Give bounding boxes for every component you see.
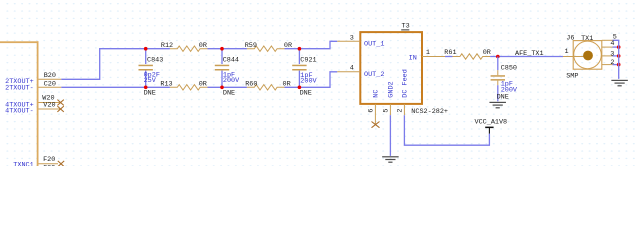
svg-text:200V: 200V — [223, 77, 240, 85]
svg-text:SMP: SMP — [566, 72, 578, 80]
svg-text:C844: C844 — [223, 56, 239, 64]
svg-text:2: 2 — [610, 59, 614, 67]
svg-text:25V: 25V — [144, 77, 157, 85]
svg-text:NCS2-282+: NCS2-282+ — [411, 108, 448, 116]
svg-text:6: 6 — [367, 109, 375, 113]
svg-text:4: 4 — [610, 40, 614, 48]
svg-text:IN: IN — [409, 54, 417, 62]
svg-text:AFE_TX1: AFE_TX1 — [515, 50, 544, 58]
svg-text:DNE: DNE — [300, 89, 312, 97]
svg-text:DNE: DNE — [223, 90, 235, 98]
svg-text:0R: 0R — [283, 81, 291, 89]
svg-text:R12: R12 — [161, 42, 173, 50]
svg-text:VCC_A1V8: VCC_A1V8 — [475, 118, 508, 126]
svg-text:0R: 0R — [199, 81, 207, 89]
svg-text:J6: J6 — [566, 34, 574, 42]
svg-text:4TXOUT-: 4TXOUT- — [5, 108, 34, 116]
svg-text:R13: R13 — [160, 81, 172, 89]
svg-text:T3: T3 — [402, 22, 410, 30]
svg-text:TX1: TX1 — [581, 35, 593, 43]
svg-text:DNE: DNE — [497, 94, 509, 102]
svg-text:R60: R60 — [245, 81, 257, 89]
svg-text:R59: R59 — [245, 42, 257, 50]
svg-text:F20: F20 — [43, 156, 55, 164]
svg-text:OUT_1: OUT_1 — [364, 41, 384, 49]
svg-text:4: 4 — [350, 64, 354, 72]
svg-text:3: 3 — [350, 34, 354, 42]
svg-text:OUT_2: OUT_2 — [364, 71, 384, 79]
svg-text:G20: G20 — [43, 164, 55, 166]
svg-text:0R: 0R — [199, 42, 207, 50]
svg-text:3: 3 — [610, 50, 614, 58]
svg-text:0R: 0R — [284, 42, 292, 50]
svg-text:DC Feed: DC Feed — [402, 69, 410, 98]
svg-text:GND2: GND2 — [388, 81, 396, 97]
svg-text:DNE: DNE — [144, 90, 156, 98]
svg-text:C921: C921 — [300, 56, 316, 64]
svg-text:B20: B20 — [44, 72, 56, 80]
svg-text:2: 2 — [396, 109, 404, 113]
svg-text:TXNC1: TXNC1 — [13, 162, 33, 166]
svg-text:C843: C843 — [147, 56, 163, 64]
svg-text:C850: C850 — [501, 65, 517, 73]
svg-text:1: 1 — [565, 48, 569, 56]
svg-text:2TXOUT-: 2TXOUT- — [5, 85, 34, 93]
svg-text:200V: 200V — [300, 78, 317, 86]
svg-text:V20: V20 — [43, 102, 55, 110]
svg-text:5: 5 — [382, 109, 390, 113]
svg-text:R61: R61 — [444, 49, 456, 57]
svg-text:C20: C20 — [44, 80, 56, 88]
svg-text:1: 1 — [426, 49, 430, 57]
svg-text:NC: NC — [373, 90, 381, 98]
svg-text:0R: 0R — [483, 49, 491, 57]
